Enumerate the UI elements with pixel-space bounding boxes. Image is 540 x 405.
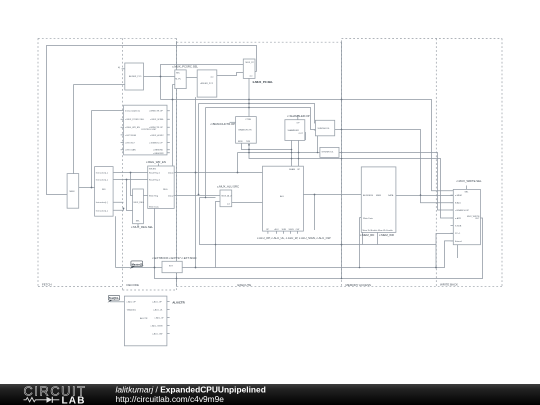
- svg-text:c.MUX_A.SRC: c.MUX_A.SRC: [150, 134, 164, 137]
- wire MUX_WRITE left stubs: [451, 195, 454, 241]
- box ADDER_PC1: [118, 63, 144, 90]
- svg-text:c.ALU_OW: c.ALU_OW: [152, 333, 162, 336]
- svg-text:INS: INS: [102, 189, 106, 191]
- junction at (91.5,187.5): [91, 187, 93, 189]
- dashed divider x=437: [435, 38, 437, 287]
- wire ALUTR right stubs: [167, 302, 170, 334]
- flag MASTER: [130, 261, 144, 269]
- box MUX_REG: [133, 189, 145, 224]
- logo diode: [40, 399, 47, 401]
- svg-text:WRITE BACK: WRITE BACK: [440, 282, 458, 286]
- svg-text:c.SHAMBLER.OP: c.SHAMBLER.OP: [287, 114, 310, 118]
- svg-text:ADDER_PC2: ADDER_PC2: [201, 82, 214, 85]
- wire MUX_PCSRC riser3 to EXT: [176, 89, 178, 262]
- svg-text:c.ALU_OP: c.ALU_OP: [152, 301, 162, 304]
- junction at (341.5,158.5): [341, 158, 343, 160]
- junction at (205.5,197.5): [205, 197, 207, 199]
- box MUX_PCSRC: [175, 70, 186, 89]
- svg-text:c.REG_WR_EN: c.REG_WR_EN: [125, 127, 140, 129]
- box IMEM: [67, 174, 79, 209]
- svg-text:T/Ax[010]: T/Ax[010]: [127, 309, 136, 312]
- svg-text:OUT: OUT: [299, 133, 304, 135]
- svg-text:BRANCHCTR: BRANCHCTR: [239, 129, 253, 132]
- wire extend bus right: [182, 241, 453, 268]
- svg-text:c.REG_WR_EN: c.REG_WR_EN: [146, 160, 166, 164]
- svg-text:DECODE: DECODE: [127, 283, 139, 287]
- svg-text:c.MUX_ALU.SRC: c.MUX_ALU.SRC: [217, 185, 239, 189]
- dashed divider x=122.5: [122, 38, 124, 290]
- wire imem out: [79, 187, 95, 189]
- svg-text:Master[3..: Master[3..: [132, 262, 144, 266]
- svg-text:Instruction[31:1]: Instruction[31:1]: [125, 110, 140, 113]
- svg-text:OW: OW: [296, 229, 300, 231]
- junction at (130.5,172.5): [130, 172, 132, 174]
- box SHAMBLER: [285, 120, 305, 141]
- wire MUX_PCSRC riser2: [172, 85, 174, 167]
- svg-text:c.MUX_REG.SEL: c.MUX_REG.SEL: [131, 225, 154, 229]
- wire RF read1 to REG: [113, 172, 148, 174]
- junction at (461,233.2): [460, 232, 462, 234]
- wire SHAMBLER pins to ALU: [292, 140, 299, 166]
- dashed region tops: [38, 38, 502, 42]
- junction at (215.5,244.5): [215, 244, 217, 246]
- wire REG data1 to ALU: [174, 172, 262, 174]
- wire PC+1 bus down branch: [435, 245, 437, 268]
- box MUX_ALU: [220, 190, 232, 207]
- svg-text:c.MUX_PCSRC.SEL: c.MUX_PCSRC.SEL: [125, 119, 145, 121]
- wire DMEM bottom pin drops: [363, 232, 378, 244]
- svg-text:Read Reg 1: Read Reg 1: [149, 173, 161, 175]
- wire BRANCHCTR TKN to MUX_WRITE: [249, 143, 453, 218]
- wire ADDER_PC1 out to MUX_PCSRC: [144, 76, 175, 78]
- svg-text:out: out: [227, 203, 230, 206]
- wire vertical x=74 to IMEM top: [73, 85, 75, 174]
- svg-text:a.APR: a.APR: [455, 217, 462, 220]
- junction at (249,149.5): [248, 149, 250, 151]
- junction at (249,103.5): [248, 103, 250, 105]
- wire MUX_ALU in2 riser: [216, 202, 221, 268]
- junction at (341.5,99.5): [341, 99, 343, 101]
- wire ADDER_PC2 out to MUX_PC: [217, 73, 244, 76]
- wire bus yC left drop: [205, 108, 207, 198]
- junction at (154.5,267.5): [154, 267, 156, 269]
- svg-text:DATA: DATA: [388, 194, 394, 197]
- junction at (436,267.5): [435, 267, 437, 269]
- wire compare line to STRSHOOLER: [238, 152, 320, 154]
- wire ctrl right stubs: [167, 111, 170, 153]
- svg-text:Data2: Data2: [168, 195, 174, 198]
- wire extend bus left riser: [115, 216, 117, 267]
- box SUBSHOOLER: [315, 120, 334, 136]
- junction at (249,149.5): [248, 149, 250, 151]
- dashed divider x=341: [341, 42, 343, 287]
- svg-text:c.EXT.S17: c.EXT.S17: [125, 143, 136, 145]
- svg-text:STR/SHOOL: STR/SHOOL: [322, 152, 335, 154]
- wire SHAMBLER out drop: [304, 133, 307, 141]
- svg-text:ALU/TR: ALU/TR: [140, 317, 148, 320]
- junction at (237.5,172.5): [237, 172, 239, 174]
- svg-text:OUT: OUT: [475, 218, 480, 220]
- svg-text:FETCH: FETCH: [42, 282, 52, 286]
- wire bus yA: [161, 100, 454, 191]
- svg-text:out: out: [250, 75, 253, 78]
- svg-text:B.ALU: B.ALU: [455, 202, 462, 205]
- wire bus yC to SUBSHOOLER pin2: [206, 108, 316, 130]
- svg-text:c.ALU_SIGN: c.ALU_SIGN: [151, 325, 163, 328]
- svg-text:MUX_PC: MUX_PC: [246, 62, 255, 64]
- svg-text:c.MUX_PCSRC.SEL: c.MUX_PCSRC.SEL: [172, 64, 198, 68]
- svg-text:SHAMBLER: SHAMBLER: [288, 129, 300, 132]
- svg-text:c.MEM.RD: c.MEM.RD: [153, 150, 164, 152]
- svg-text:c.MUX_WRITE.SEL: c.MUX_WRITE.SEL: [457, 179, 482, 183]
- wire compare drop to Data1: [237, 153, 239, 173]
- junction at (341.5,129.5): [341, 129, 343, 131]
- svg-text:a.MEM: a.MEM: [455, 195, 462, 197]
- dashed divider x=176: [176, 42, 178, 287]
- wire x341 long vertical: [341, 42, 343, 278]
- wire MUX_PCSRC in2 from below: [173, 84, 175, 86]
- wire small link: [200, 197, 216, 199]
- svg-text:MEM: MEM: [70, 191, 75, 193]
- svg-text:c.MEM_WR: c.MEM_WR: [379, 233, 394, 237]
- box EXT: [162, 261, 182, 272]
- wire bus yB to SUBSHOOLER: [199, 104, 316, 124]
- wire REG top stub: [158, 164, 160, 167]
- svg-text:http://circuitlab.com/c4v9m9e: http://circuitlab.com/c4v9m9e: [116, 394, 225, 404]
- svg-text:c.EXT.SIGN: c.EXT.SIGN: [125, 135, 137, 137]
- wire BRANCHCTR left pin stub: [230, 121, 236, 123]
- junction at (341.5,278.5): [341, 278, 343, 280]
- junction at (298.5,158.5): [298, 158, 300, 160]
- junction at (341.5,152.5): [341, 152, 343, 154]
- wire SUBSHOOLER bottom pin: [317, 136, 319, 153]
- wire ALU out to DMEM: [303, 194, 361, 196]
- svg-text:c.SGNEXL.OP: c.SGNEXL.OP: [149, 143, 163, 145]
- junction at (172.5,99.5): [172, 99, 174, 101]
- wire PC+1 bus left edge: [200, 198, 437, 245]
- svg-text:c.EXT.OAN: c.EXT.OAN: [125, 149, 136, 152]
- junction at (298.5,152.5): [298, 152, 300, 154]
- svg-text:REG: REG: [163, 189, 168, 191]
- svg-text:S.SUB: S.SUB: [455, 226, 462, 228]
- junction at (195.5,267.5): [195, 267, 197, 269]
- svg-text:ADDER_PC1: ADDER_PC1: [129, 75, 142, 78]
- svg-text:MEMORY ACCESS: MEMORY ACCESS: [346, 283, 372, 287]
- box STRSHOOLER: [320, 147, 339, 157]
- svg-text:c.BRANCHCTR.OP: c.BRANCHCTR.OP: [211, 122, 236, 126]
- svg-text:c.ALU.OP: c.ALU.OP: [127, 301, 137, 304]
- svg-text:CTRB: CTRB: [245, 119, 251, 121]
- wire read1 drop to MUX_REG: [131, 173, 133, 196]
- wire shambler top tick: [297, 117, 299, 120]
- svg-text:ALU: ALU: [280, 195, 285, 198]
- wire MUX_ALU out to ALU: [232, 202, 263, 204]
- junction at (317.5,152.5): [317, 152, 319, 154]
- svg-text:lalitkumarj / ExpandedCPUUnpip: lalitkumarj / ExpandedCPUUnpipelined: [116, 384, 266, 394]
- svg-text:EXECUTE: EXECUTE: [238, 283, 252, 287]
- wire into MUX_PC in1: [161, 65, 244, 100]
- junction at (126.5,179.5): [126, 179, 128, 181]
- svg-text:Instruction[..]: Instruction[..]: [96, 179, 108, 182]
- logo resistor zigzag: [24, 398, 40, 402]
- wire subshooler left stub: [314, 129, 316, 131]
- svg-text:SIGN: SIGN: [289, 229, 295, 231]
- junction at (291.5,149.5): [291, 149, 293, 151]
- svg-text:c.ALU_OP, c.ALU_UL, c.ALU_W, c: c.ALU_OP, c.ALU_UL, c.ALU_W, c.ALU_SIGN,…: [257, 236, 331, 240]
- wire MUX_REG out: [143, 195, 147, 197]
- wire MUX_PC SEL vertical to BRANCHCTR: [248, 78, 250, 116]
- wire MUX_PCSRC out to ADDER_PC2: [186, 77, 197, 79]
- wire BRANCHCTR BRN pin: [242, 143, 292, 149]
- wire MUX_PC out stub: [255, 71, 257, 73]
- wire ALU out tee down: [314, 195, 316, 231]
- box ALUTR test: [124, 296, 166, 346]
- junction at (195.5,172.5): [195, 172, 197, 174]
- svg-text:Read Reg 2: Read Reg 2: [149, 180, 161, 182]
- wire STRSHOOLER out to MUX_WRITE: [339, 153, 453, 211]
- junction at (176.5,278.5): [176, 278, 178, 280]
- wire extend bus: [116, 267, 163, 269]
- svg-text:PC+1: PC+1: [455, 233, 461, 235]
- wire DMEM data out to MUX_WRITE: [396, 195, 453, 197]
- svg-text:SUB/SHOOL: SUB/SHOOL: [318, 128, 331, 130]
- svg-text:ALU/CTR: ALU/CTR: [172, 300, 184, 304]
- junction at (314.5,194.5): [314, 194, 316, 196]
- junction at (198.5,194.5): [198, 194, 200, 196]
- svg-text:M_PC: M_PC: [175, 79, 181, 81]
- svg-text:c.BRANCH.OP: c.BRANCH.OP: [455, 209, 470, 212]
- svg-text:b.MUX_PC.SEL: b.MUX_PC.SEL: [253, 80, 274, 84]
- svg-text:Extend: Extend: [455, 240, 462, 243]
- wire MUX_PCSRC.SEL vertical: [176, 41, 178, 70]
- wire RF read2 to REG: [113, 179, 148, 181]
- svg-text:MUX_REG: MUX_REG: [134, 202, 145, 204]
- svg-text:Test[31..: Test[31..: [109, 296, 120, 300]
- svg-text:out: out: [211, 76, 214, 79]
- junction at (291.5,152.5): [291, 152, 293, 154]
- box MUX_PC: [243, 59, 255, 78]
- svg-text:Instruction[..]: Instruction[..]: [96, 201, 108, 204]
- wire MUX_WRITE SEL stub: [466, 186, 468, 190]
- svg-text:Write Reg: Write Reg: [149, 195, 159, 198]
- box DMEM: [361, 167, 396, 233]
- wire writeback return: [155, 208, 483, 278]
- junction at (123.5,208.4): [123, 208, 125, 210]
- junction at (249,144.9): [248, 144, 250, 146]
- wire const4 to ADDER_PC1: [122, 68, 125, 70]
- junction at (249,107.5): [248, 107, 250, 109]
- svg-text:Write Data: Write Data: [363, 217, 374, 220]
- svg-text:c.BRNCTR.OP: c.BRNCTR.OP: [149, 127, 163, 129]
- wire EXT bottom pin: [176, 273, 178, 287]
- wire PC to ADDER_PC1 in2: [74, 84, 125, 86]
- svg-text:c.BRNCTR.OP: c.BRNCTR.OP: [149, 111, 163, 113]
- box MUX_WRITE: [453, 189, 480, 244]
- wire MUX_WRITE bottom stub: [457, 245, 459, 258]
- svg-text:c.ALU_W: c.ALU_W: [155, 317, 164, 320]
- svg-text:c.EXT.BOOK c.EXT.S7 c.EXT.SI: c.EXT.BOOK c.EXT.S7 c.EXT.SIGN: [152, 256, 196, 260]
- box ALU: [263, 166, 304, 231]
- box CONTROL UNIT: [124, 105, 167, 155]
- wire instr to control: [92, 110, 124, 112]
- wire instr vertical: [91, 111, 93, 188]
- svg-text:Mem Rd Enable Mem Wr Enable: Mem Rd Enable Mem Wr Enable: [363, 229, 394, 232]
- wire ALU bottom pin stubs: [268, 231, 298, 234]
- box BRANCHCTR: [236, 117, 257, 144]
- junction at (249,99.5): [248, 99, 250, 101]
- wire MUX_REG SEL stub: [137, 224, 139, 227]
- wire PC loop top: [47, 46, 257, 195]
- svg-text:Instruction[..]: Instruction[..]: [96, 172, 108, 175]
- svg-text:SUB: SUB: [282, 229, 287, 231]
- junction at (291.5,158.5): [291, 158, 293, 160]
- svg-text:c.ALU_UL: c.ALU_UL: [153, 309, 163, 312]
- junction at (359.5,267.5): [359, 267, 361, 269]
- svg-text:c.MUX_W.SEL: c.MUX_W.SEL: [150, 119, 165, 121]
- junction at (420.5,195.1): [420, 194, 422, 196]
- flag Test tag: [108, 295, 120, 302]
- svg-text:Data1: Data1: [168, 172, 174, 175]
- svg-text:ADDRESS: ADDRESS: [363, 194, 374, 197]
- wire PC+1 bus up branch: [436, 234, 453, 245]
- wire yB drop: [198, 104, 200, 195]
- svg-text:MEM: MEM: [376, 195, 381, 197]
- wire RF out stubs: [113, 202, 123, 210]
- box REG: [148, 166, 175, 209]
- wire testbox to ALUTR: [110, 301, 124, 303]
- svg-text:LAB: LAB: [62, 395, 86, 405]
- svg-text:SHAM: SHAM: [289, 168, 295, 171]
- svg-text:CONTROL UNIT: CONTROL UNIT: [141, 129, 157, 131]
- junction at (160.5,76.5): [160, 76, 162, 78]
- junction at (249,152.5): [248, 152, 250, 154]
- box ADDER_PC2: [197, 70, 217, 97]
- svg-text:WR.EN: WR.EN: [149, 169, 156, 171]
- box instruction splitter: [95, 167, 114, 217]
- dashed region left edge: [37, 38, 39, 286]
- wire ctrl left stubs: [121, 119, 124, 149]
- wire DMEM write data: [360, 218, 362, 268]
- svg-text:c.MEM.WR: c.MEM.WR: [153, 153, 164, 155]
- junction at (341.5,244.5): [341, 244, 343, 246]
- dashed region right edge: [501, 38, 503, 287]
- wire ADDER_PC2 drop: [195, 97, 197, 267]
- svg-text:ALU: ALU: [275, 228, 280, 231]
- wire read2 drop to MUX_REG: [127, 180, 133, 211]
- wire SUBSHOOLER out to MUX_WRITE: [335, 130, 454, 203]
- svg-text:Write Data: Write Data: [149, 206, 160, 209]
- svg-text:Instruction[..]: Instruction[..]: [96, 209, 108, 212]
- wire REG data2 to MUX_ALU: [174, 195, 220, 197]
- svg-text:c.MEM_RD: c.MEM_RD: [360, 233, 374, 237]
- svg-text:MUX_ALU: MUX_ALU: [222, 195, 232, 198]
- svg-text:TKN: TKN: [246, 141, 251, 143]
- dashed region bottoms: [38, 286, 502, 290]
- svg-text:BRN: BRN: [238, 141, 243, 143]
